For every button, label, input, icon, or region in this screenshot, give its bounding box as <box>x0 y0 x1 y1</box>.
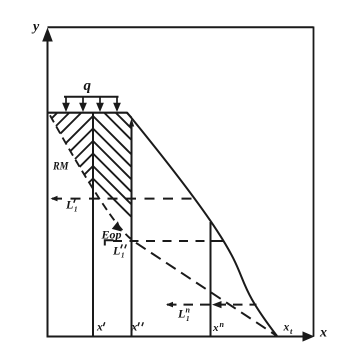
vertical line x'' <box>131 121 133 337</box>
herringbone hatch right arms <box>127 113 132 118</box>
svg-text:1: 1 <box>74 206 78 214</box>
svg-text:x: x <box>212 322 219 334</box>
load arrow 2 <box>82 97 84 105</box>
load arrow 3 <box>99 97 101 105</box>
y-axis line <box>47 38 49 337</box>
svg-text:L: L <box>112 244 120 258</box>
svg-text:x: x <box>283 322 290 334</box>
dashed level line L' <box>52 198 192 200</box>
x'' top arrowhead <box>129 119 134 127</box>
svg-text:y: y <box>31 20 40 35</box>
dashed level line L'' (Eop level) <box>105 240 210 242</box>
x-axis line <box>47 336 306 338</box>
svg-text:n: n <box>186 306 191 315</box>
svg-text:x: x <box>319 326 327 341</box>
svg-text:n: n <box>220 320 225 329</box>
ground top line <box>47 112 128 114</box>
solid boundary curve to x_t <box>127 113 277 337</box>
svg-text:RM: RM <box>52 161 69 173</box>
RM curve arrowhead <box>112 221 122 231</box>
L' left arrowhead <box>51 196 58 202</box>
load arrow 1 <box>63 97 119 110</box>
L^n arrowhead at x^n line <box>212 301 222 308</box>
frame right line <box>313 27 315 337</box>
L^n left arrowhead <box>166 302 173 308</box>
L'' left tick <box>105 240 114 245</box>
dashed level line L^n <box>167 304 257 306</box>
load arrow 4 <box>116 97 118 105</box>
load line q <box>64 96 119 98</box>
frame top line <box>48 26 314 28</box>
vertical line x^n <box>210 222 212 337</box>
dashed RM slip curve <box>49 114 131 240</box>
svg-text:Eop: Eop <box>100 230 121 242</box>
svg-text:q: q <box>84 78 92 94</box>
svg-text:x: x <box>131 322 138 334</box>
svg-text:x: x <box>96 322 103 334</box>
dashed line Eop to x_t <box>131 240 277 337</box>
svg-text:t: t <box>290 326 293 336</box>
y-axis arrowhead <box>42 28 53 42</box>
herringbone hatch left arms <box>52 113 132 217</box>
L'' level solid end segment at x^n <box>212 240 225 242</box>
svg-text:L: L <box>65 198 73 212</box>
vertical line x' <box>92 113 94 337</box>
x-axis arrowhead <box>303 331 315 341</box>
svg-text:1: 1 <box>121 252 125 260</box>
svg-text:L: L <box>177 307 185 321</box>
svg-text:1: 1 <box>186 315 190 323</box>
